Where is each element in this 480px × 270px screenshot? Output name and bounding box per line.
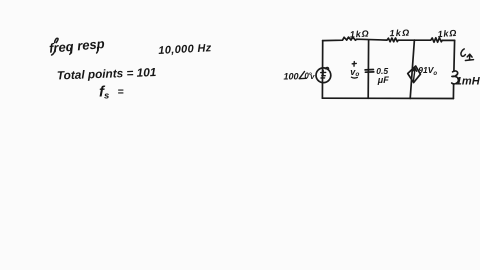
- svg-text:1kΩ: 1kΩ: [437, 28, 457, 39]
- svg-text:μF: μF: [377, 75, 389, 85]
- svg-text:100: 100: [284, 71, 299, 81]
- svg-text:=: =: [118, 86, 124, 98]
- svg-text:1kΩ: 1kΩ: [350, 28, 370, 39]
- svg-text:1kΩ: 1kΩ: [389, 28, 410, 39]
- svg-text:1mH: 1mH: [456, 75, 480, 87]
